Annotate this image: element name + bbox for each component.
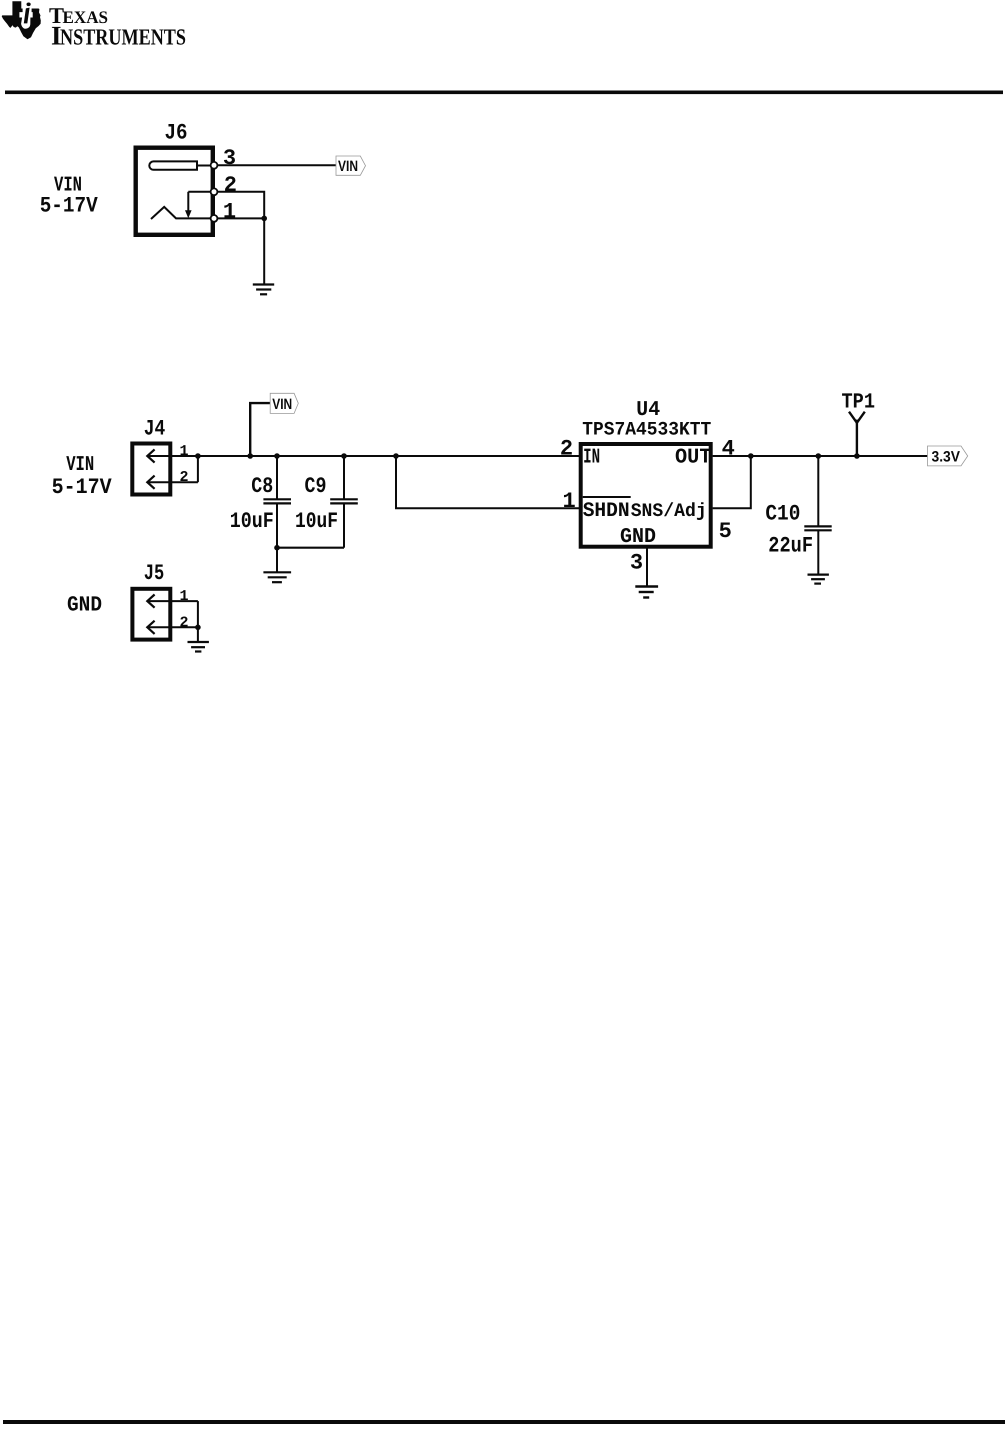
net flag 3.3V (output) bbox=[928, 446, 968, 466]
wire input rail J4 to U4 IN bbox=[198, 455, 580, 457]
test point TP1 bbox=[849, 412, 865, 459]
svg-text:5: 5 bbox=[719, 519, 732, 544]
TI logo bug icon bbox=[2, 1, 41, 39]
svg-text:1: 1 bbox=[180, 443, 189, 460]
svg-text:VIN: VIN bbox=[66, 454, 94, 477]
svg-text:C8: C8 bbox=[251, 474, 273, 499]
svg-text:10uF: 10uF bbox=[230, 509, 274, 534]
svg-text:GND: GND bbox=[67, 593, 102, 617]
net label VIN 5-17V (left of J4) bbox=[52, 454, 113, 500]
J6 pin 1 terminal circle bbox=[211, 215, 218, 222]
junction dot at SHDN tap bbox=[393, 453, 399, 459]
junction dot at feedback tap bbox=[748, 453, 754, 459]
J6 barrel center-pin symbol bbox=[149, 161, 197, 169]
J6 pin 3 terminal circle bbox=[211, 162, 218, 169]
ground symbol below C10 bbox=[808, 575, 829, 584]
svg-text:1: 1 bbox=[223, 200, 236, 225]
svg-text:1: 1 bbox=[563, 489, 576, 514]
wire output rail U4 OUT to 3.3V tag bbox=[713, 455, 928, 457]
wire down to input caps ground bbox=[276, 548, 278, 572]
svg-text:2: 2 bbox=[224, 173, 237, 198]
svg-text:C10: C10 bbox=[765, 502, 800, 527]
wire down to J5 ground bbox=[197, 627, 199, 642]
svg-text:5-17V: 5-17V bbox=[40, 193, 99, 218]
top border rule bbox=[5, 91, 1003, 95]
svg-text:TP1: TP1 bbox=[842, 391, 876, 415]
U4 pin name SHDN with overbar bbox=[583, 497, 631, 523]
svg-text:3: 3 bbox=[630, 551, 643, 576]
ground symbol below C8/C9 bbox=[263, 572, 291, 582]
J6 pin 2 terminal circle bbox=[211, 188, 218, 195]
net flag VIN (on input rail) bbox=[270, 393, 298, 413]
net flag VIN (at J6 pin 3) bbox=[336, 156, 366, 175]
svg-text:22uF: 22uF bbox=[768, 534, 813, 559]
svg-text:C9: C9 bbox=[305, 474, 327, 499]
regulator U4 box bbox=[581, 444, 711, 547]
svg-text:5-17V: 5-17V bbox=[52, 475, 113, 500]
svg-text:2: 2 bbox=[180, 469, 189, 486]
TI wordmark TEXAS bbox=[49, 3, 108, 28]
junction dot at J4 pins node bbox=[195, 453, 201, 459]
svg-text:VIN: VIN bbox=[338, 158, 358, 175]
svg-text:J4: J4 bbox=[144, 417, 166, 442]
wire stub to VIN flag bbox=[250, 403, 270, 456]
svg-text:J5: J5 bbox=[144, 561, 165, 586]
J6 jack sleeve contact chevron bbox=[151, 207, 211, 219]
svg-text:3.3V: 3.3V bbox=[932, 448, 961, 465]
junction dot at VIN stub bbox=[247, 453, 253, 459]
svg-text:VIN: VIN bbox=[272, 396, 292, 413]
wire joining C8 and C9 bottoms bbox=[277, 547, 344, 549]
svg-text:4: 4 bbox=[722, 437, 735, 462]
junction dot at C8 bottom bbox=[274, 545, 280, 551]
bottom border rule bbox=[3, 1420, 1005, 1424]
wire SNS/Adj feedback to OUT bbox=[713, 456, 751, 508]
junction dot at J5 pins node bbox=[195, 625, 201, 631]
ground symbol below U4 bbox=[635, 587, 658, 598]
ground symbol below J5 bbox=[188, 642, 209, 652]
connector J4 box (VIN header) bbox=[132, 444, 170, 495]
ground symbol below J6 bbox=[253, 285, 274, 295]
svg-text:10uF: 10uF bbox=[295, 509, 338, 534]
svg-text:SNS/Adj: SNS/Adj bbox=[631, 500, 707, 522]
wire J6 pin 1 to ground node bbox=[214, 217, 264, 219]
wire down to J6 ground bbox=[263, 218, 265, 284]
svg-text:J6: J6 bbox=[165, 121, 188, 146]
wire J6 pin 2 down to pin 1 node bbox=[188, 192, 264, 219]
svg-text:2: 2 bbox=[560, 437, 573, 462]
svg-text:1: 1 bbox=[180, 588, 189, 605]
junction dot at J6 pin1/pin2 node bbox=[261, 216, 267, 222]
wire rail to U4 SHDN pin bbox=[396, 456, 580, 508]
J6 switch arrow bbox=[185, 192, 192, 218]
wire J6 pin 3 to VIN tag bbox=[214, 164, 336, 166]
J4 pin 1 arrow and wire bbox=[147, 449, 198, 462]
J5 pin 2 arrow and wire bbox=[147, 601, 198, 634]
connector J6 box (DC power jack) bbox=[136, 148, 213, 235]
svg-text:GND: GND bbox=[620, 526, 656, 549]
capacitor C10 bbox=[804, 453, 831, 574]
capacitor C9 bbox=[330, 453, 358, 548]
J5 pin 1 arrow and wire bbox=[147, 595, 198, 608]
svg-text:OUT: OUT bbox=[675, 446, 712, 469]
capacitor C8 bbox=[263, 453, 291, 548]
svg-text:3: 3 bbox=[223, 146, 236, 171]
svg-text:NSTRUMENTS: NSTRUMENTS bbox=[60, 24, 186, 49]
wire U4 GND pin down bbox=[646, 549, 648, 587]
svg-text:SHDN: SHDN bbox=[583, 500, 630, 523]
connector J5 box (GND header) bbox=[132, 589, 170, 640]
net label VIN 5-17V (left of J6) bbox=[40, 174, 99, 218]
svg-text:2: 2 bbox=[180, 614, 189, 631]
svg-text:IN: IN bbox=[583, 446, 600, 469]
svg-text:TPS7A4533KTT: TPS7A4533KTT bbox=[582, 419, 711, 441]
TI wordmark INSTRUMENTS bbox=[51, 20, 186, 50]
J4 pin 2 arrow and wire bbox=[147, 456, 198, 489]
